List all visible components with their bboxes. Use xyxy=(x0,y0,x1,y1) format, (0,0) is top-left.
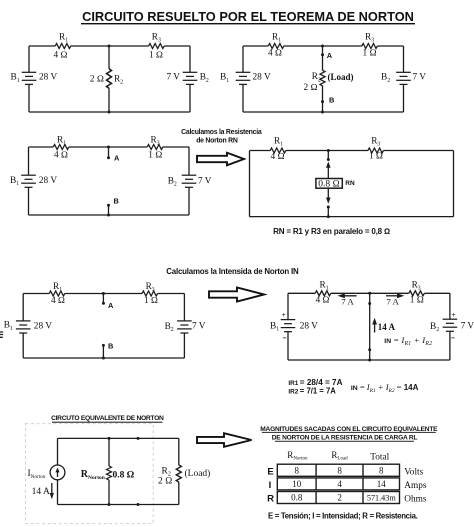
terminal stub A (circuit 3) xyxy=(107,146,110,160)
svg-text:Calculamos la Resistencia: Calculamos la Resistencia xyxy=(181,129,262,136)
resistor R3 (circuit 2) xyxy=(362,44,378,49)
svg-text:A: A xyxy=(108,301,114,310)
block arrow 3 xyxy=(197,433,252,447)
resistor R1 (circuit 2) xyxy=(268,44,284,49)
wire loop circuit 3 xyxy=(29,147,190,215)
resistor R3 (circuit 6) xyxy=(409,291,425,296)
svg-text:1 Ω: 1 Ω xyxy=(144,296,158,306)
current arrow left 7A (circuit 6) xyxy=(338,293,357,306)
node B (circuit 2) xyxy=(321,100,324,103)
svg-text:4: 4 xyxy=(337,479,342,489)
svg-text:28 V: 28 V xyxy=(39,73,57,83)
junction node top (circuit 2) xyxy=(321,45,324,48)
svg-text:A: A xyxy=(114,154,120,163)
table title line 2 xyxy=(272,435,418,442)
svg-text:IR2: IR2 xyxy=(288,388,298,395)
svg-text:B: B xyxy=(108,342,113,351)
table values row I xyxy=(292,479,386,489)
svg-text:2 Ω: 2 Ω xyxy=(158,477,172,487)
terminal stub A (circuit 5) xyxy=(102,292,105,305)
svg-text:4 Ω: 4 Ω xyxy=(271,152,285,162)
svg-text:E = Tensión; I = Intensidad; R: E = Tensión; I = Intensidad; R = Resiste… xyxy=(268,511,418,520)
svg-text:4 Ω: 4 Ω xyxy=(268,49,282,59)
svg-text:2 Ω: 2 Ω xyxy=(304,83,318,93)
svg-text:RN: RN xyxy=(345,180,355,187)
formula IR1 = 28/4 = 7A xyxy=(288,378,342,387)
resistor R2 (circuit 1) xyxy=(107,69,112,89)
wire loop circuit 1 xyxy=(29,46,190,112)
node A (circuit 2) xyxy=(321,53,324,56)
battery B1 (circuit 2) xyxy=(236,72,251,84)
resistor R2 load (circuit 2) xyxy=(320,70,325,86)
svg-text:8: 8 xyxy=(379,465,384,475)
svg-text:Ohms: Ohms xyxy=(404,495,427,505)
svg-text:Amps: Amps xyxy=(404,481,427,491)
svg-text:14 A: 14 A xyxy=(32,487,50,497)
svg-text:E: E xyxy=(267,466,273,477)
dimension arrow up (circuit 4) xyxy=(326,162,331,179)
table row box I xyxy=(277,478,399,490)
svg-text:B: B xyxy=(114,197,119,206)
battery B2 (circuit 5) xyxy=(177,321,192,333)
current arrow right 7A (circuit 6) xyxy=(386,293,404,306)
svg-text:28 V: 28 V xyxy=(39,176,57,186)
svg-text:+: + xyxy=(282,310,286,319)
svg-text:CIRCUTO EQUIVALENTE DE NORTON: CIRCUTO EQUIVALENTE DE NORTON xyxy=(51,415,164,422)
svg-text:14: 14 xyxy=(377,479,387,489)
battery B1 (circuit 3) xyxy=(21,175,36,187)
title circuito equivalente de Norton xyxy=(51,415,164,423)
battery B2 (circuit 3) xyxy=(182,175,197,187)
svg-text:571.43m: 571.43m xyxy=(367,494,397,503)
junction dots middle branch (circuit 6) xyxy=(368,292,371,362)
junction dots (circuit 7) xyxy=(108,437,140,506)
resistor R1 (circuit 1) xyxy=(55,44,71,49)
wire loop circuit 5 xyxy=(23,294,184,359)
resistor R3 (circuit 3) xyxy=(147,145,163,150)
current arrow up 14 A (circuit 6) xyxy=(372,318,395,333)
svg-text:1 Ω: 1 Ω xyxy=(410,296,424,306)
svg-text:1 Ω: 1 Ω xyxy=(369,151,383,161)
terminal stub top (circuit 4) xyxy=(327,149,330,161)
svg-text:CIRCUITO RESUELTO POR EL TEORE: CIRCUITO RESUELTO POR EL TEOREMA DE NORT… xyxy=(82,9,414,24)
svg-text:Calculamos la Intensida de Nor: Calculamos la Intensida de Norton IN xyxy=(166,267,299,276)
svg-text:Total: Total xyxy=(370,453,389,463)
battery B2 (circuit 6) xyxy=(443,319,458,331)
svg-text:7 V: 7 V xyxy=(167,73,181,83)
box RN 0.8 ohm (circuit 4) xyxy=(316,179,342,190)
formula IR2 = 7/1 = 7A xyxy=(288,386,336,395)
svg-text:DE NORTON DE LA RESISTENCIA DE: DE NORTON DE LA RESISTENCIA DE CARGA RL xyxy=(272,435,418,442)
svg-text:RN = R1 y R3 en paralelo = 0,8: RN = R1 y R3 en paralelo = 0,8 Ω xyxy=(273,227,390,236)
table values row R xyxy=(291,493,396,503)
battery B2 (circuit 1) xyxy=(183,72,198,84)
svg-text:1 Ω: 1 Ω xyxy=(363,49,377,59)
resistor R1 (circuit 5) xyxy=(49,291,65,296)
battery B1 (circuit 5) xyxy=(16,321,31,333)
table values row E xyxy=(294,465,384,475)
table row box R xyxy=(277,492,399,504)
svg-text:28 V: 28 V xyxy=(300,321,318,331)
svg-text:2 Ω: 2 Ω xyxy=(90,75,104,85)
svg-text:0.8 Ω: 0.8 Ω xyxy=(318,180,340,190)
caption Calculamos la Resistencia de Norton RN xyxy=(181,129,262,145)
wire loop circuit 2 xyxy=(243,46,404,112)
svg-text:+: + xyxy=(451,310,455,319)
svg-text:B: B xyxy=(329,96,334,105)
svg-text:8: 8 xyxy=(337,465,342,475)
svg-text:4 Ω: 4 Ω xyxy=(51,296,65,306)
svg-text:7 V: 7 V xyxy=(461,321,474,331)
svg-text:R: R xyxy=(267,494,274,505)
svg-text:de Norton RN: de Norton RN xyxy=(196,138,238,145)
wire loop circuit 7 xyxy=(58,438,179,504)
dimension arrow down (circuit 4) xyxy=(326,188,331,204)
svg-text:4 Ω: 4 Ω xyxy=(315,296,329,306)
main title xyxy=(81,9,415,24)
svg-text:IR1: IR1 xyxy=(288,380,298,387)
terminal stub B (circuit 5) xyxy=(102,344,105,360)
minus sign B1 (circuit 6) xyxy=(283,337,287,339)
table row box E xyxy=(277,464,399,476)
svg-text:2: 2 xyxy=(337,493,342,503)
block arrow 1 xyxy=(197,153,244,166)
svg-text:7 A: 7 A xyxy=(386,297,399,307)
svg-text:7 A: 7 A xyxy=(341,297,354,307)
svg-text:4 Ω: 4 Ω xyxy=(54,150,68,160)
junction node top (circuit 1) xyxy=(108,45,111,48)
resistor R3 (circuit 1) xyxy=(149,44,165,49)
stray battery mark at left edge xyxy=(0,332,3,337)
resistor R3 (circuit 5) xyxy=(142,291,158,296)
svg-text:7 V: 7 V xyxy=(413,73,427,83)
resistor RL load (circuit 7) xyxy=(176,465,181,482)
terminal stub B (circuit 3) xyxy=(107,204,110,217)
wire loop circuit 4 xyxy=(250,151,454,217)
svg-text:(Load): (Load) xyxy=(328,72,354,82)
junction node bottom (circuit 2) xyxy=(321,111,324,114)
minus sign B2 (circuit 6) xyxy=(451,337,455,339)
svg-text:28 V: 28 V xyxy=(253,73,271,83)
svg-text:28 V: 28 V xyxy=(34,321,52,331)
svg-text:(Load): (Load) xyxy=(185,468,211,479)
dashed boundary Norton equivalent xyxy=(26,424,154,524)
svg-text:Volts: Volts xyxy=(404,467,423,477)
table title line 1 xyxy=(260,426,438,433)
resistor R1 (circuit 3) xyxy=(53,145,69,150)
svg-text:0.8 Ω: 0.8 Ω xyxy=(113,471,135,481)
junction node bottom (circuit 1) xyxy=(108,111,111,114)
svg-text:7 V: 7 V xyxy=(198,176,212,186)
battery B2 (circuit 2) xyxy=(396,72,411,84)
svg-text:= 7/1 = 7A: = 7/1 = 7A xyxy=(300,386,336,395)
resistor RNorton (circuit 7) xyxy=(107,466,112,480)
wire loop circuit 6 xyxy=(288,293,450,360)
svg-text:10: 10 xyxy=(292,479,302,489)
svg-text:I: I xyxy=(269,480,272,491)
svg-text:A: A xyxy=(327,51,333,60)
svg-text:14 A: 14 A xyxy=(378,322,396,332)
svg-text:1 Ω: 1 Ω xyxy=(148,150,162,160)
svg-text:4 Ω: 4 Ω xyxy=(53,51,67,61)
resistor R3 (circuit 4) xyxy=(368,148,384,153)
terminal stub bottom (circuit 4) xyxy=(327,206,330,219)
battery B1 (circuit 1) xyxy=(22,72,37,84)
svg-text:7 V: 7 V xyxy=(192,321,206,331)
battery B1 (circuit 6) xyxy=(281,320,296,332)
resistor R1 (circuit 4) xyxy=(270,148,286,153)
value 14 A with down arrow (circuit 7) xyxy=(32,483,54,499)
current source INorton (circuit 7) xyxy=(50,465,65,480)
svg-text:1 Ω: 1 Ω xyxy=(149,51,163,61)
svg-text:0.8: 0.8 xyxy=(291,493,303,503)
svg-text:MAGNITUDES SACADAS CON EL CIRC: MAGNITUDES SACADAS CON EL CIRCUITO EQUIV… xyxy=(260,426,438,433)
block arrow 2 xyxy=(209,288,264,302)
resistor R1 (circuit 6) xyxy=(315,291,331,296)
svg-text:8: 8 xyxy=(294,465,299,475)
